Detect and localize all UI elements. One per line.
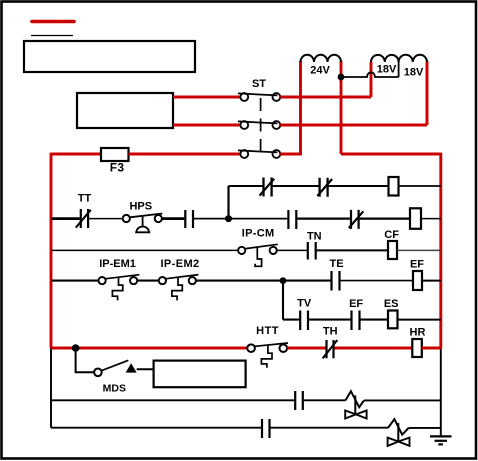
legend box [24,41,195,72]
wire HTT to TH (red) [287,347,325,350]
NO contact TV [297,297,312,330]
row G wire left [51,399,294,401]
NO contact (row B left) [185,210,193,228]
wire to junction [194,218,287,220]
right rail lower (black) [440,348,442,436]
svg-text:18V: 18V [404,66,424,78]
coil EF [410,258,424,290]
row F wire: rail to HTT (red) [51,347,247,350]
wire EF coil to rail [422,280,441,282]
row D wire: rail to IP-EM1 [51,280,99,282]
power supply box [77,93,173,128]
legend red wire sample [32,20,74,24]
wire: 24V primary right leg (red) [340,61,343,154]
svg-text:TV: TV [297,297,312,309]
svg-text:TN: TN [307,231,322,243]
NO contact (row B mid) [288,210,296,229]
wire: 24V primary left leg (red) [299,61,302,154]
wire: 18V coil2 right leg (red) [426,61,429,125]
wire: ST pole3 to primary left leg (red) [280,153,302,156]
wire to valve 2 [271,427,389,429]
coil row B [410,208,421,229]
wire TV to EF contact [309,319,351,321]
center tap wire with crossover hop [341,72,399,77]
wire TH to HR (red) [335,347,412,350]
wire IP-CM to TN [277,249,307,251]
switch MDS [94,360,137,394]
svg-text:F3: F3 [110,161,125,175]
NC contact row A #1 [260,178,275,197]
row B wire: rail to TT [51,217,80,220]
coil ES [384,298,399,328]
wire ES to rail [398,319,441,321]
svg-text:IP-EM1: IP-EM1 [99,258,136,270]
junction dot at primary/center-tap [338,74,345,81]
wire: power box to ST pole 2 (red) [173,124,240,127]
coil row A [389,177,399,196]
coil CF [384,229,399,259]
solenoid valve 2 [388,419,410,446]
NO contact EF [349,298,363,330]
row H wire left [51,427,261,429]
svg-text:EF: EF [410,258,424,270]
svg-text:HTT: HTT [256,325,279,337]
wire CF to rail [397,249,441,251]
row A riser from junction [227,186,229,216]
wire: ST pole1 to transformer primary (red) [280,96,371,99]
wire: 18V coil1 left leg (red) [370,62,373,97]
wire TE to EF coil [341,280,414,282]
switch ST pole 1 [238,93,280,101]
right rail (red) [439,153,442,348]
wire: bottom red bus to right rail [341,153,441,156]
svg-text:ES: ES [384,298,399,310]
svg-text:TH: TH [323,326,338,338]
pushbutton IP-CM [238,228,278,267]
wire coil B to rail [421,218,441,220]
svg-text:TE: TE [329,258,343,270]
wire: left rail to fuse F3 (red) [51,153,101,156]
wire to NC contact [297,217,350,219]
wire HR to rail (red) [422,347,441,350]
left rail lower (black) [50,348,52,428]
svg-text:MDS: MDS [103,382,126,394]
svg-text:TT: TT [78,193,92,205]
fuse F3 [101,148,129,161]
wire NC to coil row B [360,217,410,219]
wire: power box to ST pole 1 (red) [173,96,240,99]
MDS box [154,361,246,388]
transformer secondary winding 18V #2 [399,55,427,62]
row E wire to TV [283,319,299,321]
svg-text:HPS: HPS [129,201,152,213]
junction dot row B [225,215,232,222]
row C wire: rail to IP-CM [51,249,238,251]
pushbutton IP-EM2 [159,258,200,300]
wire valve 2 to right rail [409,427,441,429]
switch ST pole 2 [238,121,280,129]
wire IP-EM1 to IP-EM2 [137,280,159,282]
NC contact TT [76,193,92,229]
NC contact TH [323,326,338,359]
wire EF to ES coil [361,319,389,321]
svg-text:EF: EF [349,298,363,310]
NO contact row H [262,419,270,438]
wire valve 1 to right rail [364,399,441,401]
NO contact TN [307,231,322,260]
wire IP-EM2 to junction [196,280,331,282]
wire: fuse F3 to ST pole 3 (red) [129,153,241,156]
transformer primary winding 24V [301,55,342,62]
solenoid valve 1 [345,391,366,418]
NO contact row G [295,391,303,410]
switch ST mechanical link (dashed) [260,98,262,152]
NC contact row B [349,210,364,229]
switch ST pole 3 [238,150,280,158]
svg-text:ST: ST [252,78,266,90]
junction dot row D [280,277,287,284]
wire MDS to box [137,368,154,370]
svg-text:IP-CM: IP-CM [242,228,275,240]
MDS drop wire [76,349,94,372]
row A wire segments [229,185,389,187]
svg-text:CF: CF [384,229,399,241]
NO contact TE [329,258,343,291]
secondary center tap separator [398,62,400,77]
svg-text:IP-EM2: IP-EM2 [160,258,199,270]
wire: ST pole2 to transformer secondary (red) [280,124,427,127]
legend black wire sample [31,35,73,37]
svg-text:24V: 24V [310,64,330,76]
svg-text:18V: 18V [377,63,397,75]
left rail (red) [50,153,53,348]
NC contact row A #2 [317,178,332,197]
svg-text:HR: HR [410,327,426,339]
pushbutton IP-EM1 [99,258,140,300]
row E riser from junction [282,281,284,320]
wire TN to CF [317,249,388,251]
ground [430,436,452,444]
pushbutton HTT [247,325,288,368]
junction dot row F [72,344,80,352]
transformer secondary winding 18V #1 [371,55,399,62]
coil HR [410,327,426,357]
wire TT to HPS [89,218,123,220]
wire to valve 1 [304,399,346,401]
wire HPS to capacitor contact [162,217,184,220]
pressure switch HPS [123,201,163,233]
